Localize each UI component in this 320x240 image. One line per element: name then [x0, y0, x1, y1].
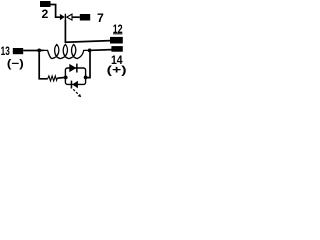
node A (junction dot) [37, 49, 41, 53]
svg-text:(+): (+) [107, 64, 127, 76]
terminal 2 [40, 1, 51, 7]
LED light arrow (dashed) [73, 89, 77, 93]
wire node B to terminal 14 [91, 49, 111, 52]
diode D3 (bottom, pointing left) [72, 81, 78, 89]
diode D2 (top, pointing right) [69, 64, 76, 72]
diode D1 [60, 14, 65, 20]
coil L1 (cursive loops) [39, 44, 88, 58]
diode block outline [65, 68, 85, 84]
wire terminal 13 to node A [23, 50, 38, 52]
terminal 12 [110, 37, 123, 44]
node D (junction dot, right of diode block) [84, 76, 88, 80]
node B (junction dot) [88, 49, 92, 53]
svg-text:(−): (−) [7, 58, 24, 70]
hollow arrow (left-pointing triangle) [67, 14, 72, 20]
resistor R1 [48, 76, 58, 81]
wire from diode bar down and right to terminal 12 [65, 20, 110, 42]
wire node D up to node B [86, 50, 90, 77]
diode D2 cathode bar [76, 64, 78, 73]
wire from terminal 2 to diode line [50, 5, 60, 18]
diode D1 cathode bar [65, 14, 66, 20]
svg-text:13: 13 [1, 44, 10, 58]
wire node A to coil [41, 49, 44, 51]
wire resistor to node C [57, 77, 64, 80]
wire node A down to resistor [39, 52, 48, 79]
node C (junction dot, left of diode block) [64, 76, 68, 80]
terminal 14 [111, 46, 122, 52]
terminal 7 [80, 14, 90, 21]
wire to terminal 7 [72, 16, 80, 18]
svg-text:7: 7 [97, 11, 104, 25]
terminal 13 [13, 48, 23, 54]
svg-text:2: 2 [42, 7, 49, 21]
diode D3 cathode bar (bottom) [71, 81, 73, 89]
